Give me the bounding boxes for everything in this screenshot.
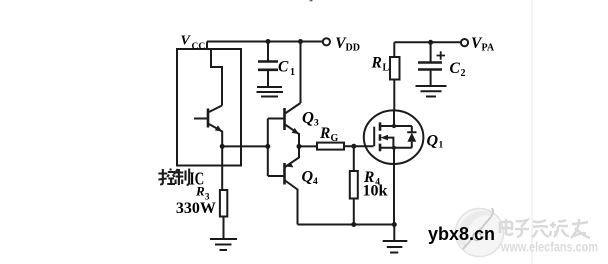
label kongzhi IC chinese chars (158, 169, 189, 186)
label VCC (181, 34, 206, 53)
mosfet Q1 gate bar (373, 127, 375, 147)
wire RG to gate (344, 145, 374, 147)
watermark chinese text dianzifashaoyou (500, 219, 590, 238)
blue-orange scan tick top (310, 0, 311, 1)
mosfet Q1 body circle (364, 110, 424, 164)
ground main (383, 241, 408, 253)
svg-text:2: 2 (461, 68, 466, 79)
label C2 (450, 60, 466, 79)
transistor T1 emitter arrow (215, 125, 222, 131)
label Q3 (302, 108, 319, 129)
svg-text:ybx8.cn: ybx8.cn (428, 224, 495, 244)
wire C1 to ground (267, 70, 269, 86)
svg-text:Q: Q (427, 133, 439, 150)
transistor T1 collector (209, 106, 222, 113)
wire VCC stub (206, 42, 208, 50)
label RG (319, 125, 339, 144)
wire RL top (393, 42, 395, 57)
transistor Q3 emitter arrow (292, 128, 299, 134)
capacitor C2 (418, 63, 442, 70)
wire top rail VCC to VDD (207, 41, 323, 43)
terminal VPA (461, 39, 468, 46)
transistor Q4 base bar (283, 163, 286, 185)
svg-text:G: G (331, 133, 339, 144)
transistor Q4 emitter (285, 146, 299, 167)
svg-text:1: 1 (439, 141, 444, 151)
label VDD (335, 35, 360, 54)
label Q1 (427, 133, 444, 151)
resistor RG (317, 143, 344, 150)
scan artifact faint vertical line (531, 0, 533, 264)
wire drain to RL (393, 80, 395, 111)
label VPA (471, 35, 495, 54)
wire ground stem (393, 225, 395, 242)
svg-text:DD: DD (346, 43, 360, 54)
terminal VDD (323, 38, 330, 45)
svg-text:C: C (278, 59, 289, 76)
ground C2 (416, 86, 447, 97)
wire bottom rail (298, 224, 395, 226)
label R4 (363, 169, 380, 188)
svg-text:Q: Q (302, 108, 314, 127)
transistor Q3 collector (285, 103, 301, 114)
svg-text:4: 4 (313, 177, 318, 187)
mosfet Q1 body diode triangle (407, 133, 416, 142)
wire node to Q3 Q4 bases (222, 145, 267, 147)
wire base junction vertical (267, 119, 269, 177)
transistor Q3 emitter (285, 125, 299, 147)
watermark logo circle (456, 208, 504, 257)
wire top rail RL to VPA (394, 41, 460, 43)
wire emitter down to R3 (221, 146, 223, 190)
mosfet Q1 body arrow (381, 135, 388, 141)
junction node dots (266, 39, 271, 44)
transistor Q4 emitter arrow (286, 162, 293, 167)
resistor R3 (220, 190, 227, 217)
wire C1 stem (267, 42, 269, 62)
label Q4 (302, 169, 319, 188)
plus sign C2 (437, 51, 446, 59)
svg-text:www.elecfans.com: www.elecfans.com (500, 240, 598, 255)
svg-text:C: C (450, 60, 461, 77)
transistor Q4 base stub (268, 175, 285, 177)
wire node down to R4 (353, 146, 355, 171)
mosfet Q1 drain lead (380, 110, 412, 126)
ground R3 (210, 239, 237, 250)
label R3 (195, 184, 210, 202)
transistor Q4 collector (285, 181, 298, 225)
wire Q3 collector up (300, 42, 302, 104)
svg-text:Q: Q (302, 169, 314, 186)
wire C2 to ground (430, 71, 432, 87)
mosfet Q1 source lead (380, 148, 412, 164)
wire C2 stem (430, 42, 432, 62)
transistor Q3 base stub (268, 118, 285, 120)
wire source to bottom rail (393, 164, 395, 225)
mosfet Q1 body lead (387, 138, 394, 148)
svg-text:10k: 10k (363, 183, 388, 200)
label C1 (278, 59, 295, 79)
wire collector staircase (211, 49, 222, 106)
svg-text:1: 1 (290, 67, 295, 78)
label RL (371, 55, 390, 74)
svg-text:L: L (383, 63, 390, 74)
ground C1 (257, 87, 284, 97)
wire R3 to ground (223, 217, 225, 240)
svg-text:R: R (371, 55, 382, 72)
mosfet Q1 body diode leads (407, 126, 416, 148)
transistor Q3 base bar (283, 108, 286, 130)
wire R4 to bottom rail (353, 199, 355, 225)
svg-text:R: R (319, 125, 330, 142)
svg-text:330W: 330W (176, 200, 216, 217)
capacitor C1 (258, 62, 278, 70)
wire node to RG (299, 145, 317, 147)
svg-text:CC: CC (192, 42, 206, 52)
transistor T1 base bar (207, 109, 210, 128)
resistor RL (390, 57, 400, 80)
mosfet Q1 channel segments (379, 122, 382, 151)
control IC box (177, 49, 241, 166)
resistor R4 (350, 171, 358, 199)
svg-text:3: 3 (314, 119, 319, 129)
svg-text:IC: IC (190, 168, 205, 188)
svg-text:PA: PA (482, 43, 495, 54)
transistor T1 emitter (209, 124, 222, 146)
transistor T1 base stub (194, 118, 208, 120)
